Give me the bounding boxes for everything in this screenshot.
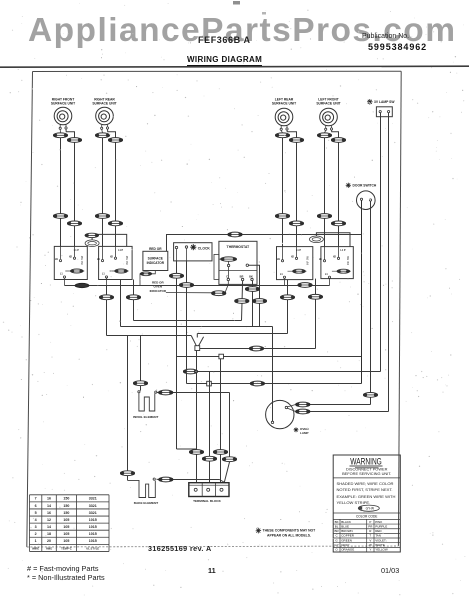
svg-text:W: W xyxy=(369,543,372,547)
svg-text:316255169 rev. A: 316255169 rev. A xyxy=(148,544,212,553)
svg-text:WHITE: WHITE xyxy=(375,543,385,547)
svg-text:H1: H1 xyxy=(55,258,59,261)
svg-text:H2: H2 xyxy=(333,256,337,259)
svg-text:AWG: AWG xyxy=(46,546,52,550)
svg-text:CLOCK: CLOCK xyxy=(198,247,211,251)
svg-text:L1: L1 xyxy=(102,273,105,276)
svg-text:2: 2 xyxy=(35,532,37,536)
svg-text:6: 6 xyxy=(35,504,37,508)
svg-text:1015: 1015 xyxy=(89,539,97,543)
svg-text:1015: 1015 xyxy=(89,518,97,522)
svg-text:105: 105 xyxy=(63,539,69,543)
svg-text:H2: H2 xyxy=(69,255,73,258)
svg-text:14: 14 xyxy=(47,504,51,508)
svg-text:SURFACE UNIT: SURFACE UNIT xyxy=(51,102,75,106)
svg-text:L1 P: L1 P xyxy=(296,249,301,252)
svg-text:EXAMPLE: GREEN WIRE WITH: EXAMPLE: GREEN WIRE WITH xyxy=(337,494,396,499)
svg-text:BK: BK xyxy=(335,520,339,524)
svg-text:L1 P: L1 P xyxy=(74,249,79,252)
svg-text:LAMP: LAMP xyxy=(300,431,309,435)
svg-text:BLUE: BLUE xyxy=(341,524,349,528)
svg-text:T: T xyxy=(369,534,371,538)
svg-text:105: 105 xyxy=(63,532,69,536)
svg-text:12: 12 xyxy=(47,518,51,522)
svg-text:1: 1 xyxy=(35,539,37,543)
svg-text:RED: RED xyxy=(375,529,382,533)
svg-text:SURFACE UNIT: SURFACE UNIT xyxy=(316,102,340,106)
svg-text:1015: 1015 xyxy=(89,525,97,529)
svg-text:TEMP°C: TEMP°C xyxy=(61,546,72,550)
svg-text:TERMINAL BLOCK: TERMINAL BLOCK xyxy=(193,499,222,503)
svg-text:PINK: PINK xyxy=(375,520,382,524)
svg-text:UL STYLE: UL STYLE xyxy=(86,546,99,550)
svg-text:Y: Y xyxy=(369,548,371,552)
svg-text:O: O xyxy=(335,548,338,552)
svg-text:3: 3 xyxy=(35,525,37,529)
svg-text:INF SW: INF SW xyxy=(306,256,310,266)
svg-text:20: 20 xyxy=(47,539,51,543)
svg-text:APPEAR ON ALL MODELS.: APPEAR ON ALL MODELS. xyxy=(267,534,311,538)
svg-text:V: V xyxy=(369,538,371,542)
svg-text:3321: 3321 xyxy=(89,504,97,508)
svg-text:SURFACE UNIT: SURFACE UNIT xyxy=(272,102,296,106)
svg-text:YELLOW STRIPE.: YELLOW STRIPE. xyxy=(337,500,371,505)
svg-text:DOOR SWITCH: DOOR SWITCH xyxy=(353,184,377,188)
svg-text:YELLOW: YELLOW xyxy=(375,548,388,552)
svg-text:BL: BL xyxy=(335,524,339,528)
svg-text:COPPER: COPPER xyxy=(341,534,355,538)
svg-text:G: G xyxy=(335,538,338,542)
svg-text:150: 150 xyxy=(63,504,69,508)
svg-text:INDICATOR: INDICATOR xyxy=(147,261,165,265)
svg-text:3321: 3321 xyxy=(89,511,97,515)
svg-text:GRAY: GRAY xyxy=(341,543,349,547)
svg-text:16: 16 xyxy=(47,497,51,501)
svg-text:H2: H2 xyxy=(291,256,295,259)
svg-text:VIOLET: VIOLET xyxy=(375,538,386,542)
svg-text:INF SW: INF SW xyxy=(125,255,129,265)
svg-text:16: 16 xyxy=(47,511,51,515)
svg-text:H2: H2 xyxy=(110,255,114,258)
svg-text:BEFORE SERVICING UNIT.: BEFORE SERVICING UNIT. xyxy=(342,471,391,476)
svg-text:GY: GY xyxy=(334,543,338,547)
svg-text:INF SW: INF SW xyxy=(346,256,350,266)
svg-text:P: P xyxy=(369,520,371,524)
svg-text:R: R xyxy=(369,529,372,533)
svg-text:WIRE: WIRE xyxy=(32,546,39,550)
svg-text:H1: H1 xyxy=(97,258,101,261)
svg-text:105: 105 xyxy=(63,525,69,529)
svg-text:H1: H1 xyxy=(319,258,323,261)
svg-text:INDICATOR: INDICATOR xyxy=(150,289,167,293)
svg-text:GY-W: GY-W xyxy=(366,507,374,511)
svg-text:1015: 1015 xyxy=(89,532,97,536)
svg-text:105: 105 xyxy=(63,518,69,522)
svg-text:L1: L1 xyxy=(325,273,328,276)
svg-text:14: 14 xyxy=(47,525,51,529)
svg-text:TAN: TAN xyxy=(375,534,381,538)
svg-text:BROIL ELEMENT: BROIL ELEMENT xyxy=(133,415,158,419)
svg-text:PURPLE: PURPLE xyxy=(375,524,387,528)
svg-text:THERMOSTAT: THERMOSTAT xyxy=(227,245,249,249)
svg-text:18: 18 xyxy=(47,532,51,536)
svg-text:150: 150 xyxy=(63,497,69,501)
svg-text:5: 5 xyxy=(35,511,37,515)
svg-text:7: 7 xyxy=(35,497,37,501)
svg-text:PR: PR xyxy=(368,524,373,528)
svg-text:3321: 3321 xyxy=(89,497,97,501)
svg-text:COLOR CODE: COLOR CODE xyxy=(356,515,377,519)
svg-text:L1 P: L1 P xyxy=(118,249,123,252)
svg-text:150: 150 xyxy=(63,511,69,515)
svg-text:RED OR: RED OR xyxy=(149,247,162,251)
svg-text:SURFACE UNIT: SURFACE UNIT xyxy=(92,102,116,106)
svg-text:GREEN: GREEN xyxy=(341,538,352,542)
svg-text:NOTED FIRST, STRIPE NEXT.: NOTED FIRST, STRIPE NEXT. xyxy=(337,487,393,492)
svg-text:H1: H1 xyxy=(277,258,281,261)
svg-text:L1 P: L1 P xyxy=(340,249,345,252)
svg-text:3V LAMP SW: 3V LAMP SW xyxy=(374,100,395,104)
svg-text:L1: L1 xyxy=(280,273,283,276)
svg-text:BR: BR xyxy=(335,529,340,533)
svg-text:SURFACE: SURFACE xyxy=(148,256,163,260)
svg-text:SHADED WIRE; WIRE COLOR: SHADED WIRE; WIRE COLOR xyxy=(337,481,394,486)
svg-text:4: 4 xyxy=(35,518,37,522)
svg-text:C: C xyxy=(336,534,339,538)
svg-text:INF SW: INF SW xyxy=(80,255,84,265)
svg-text:THESE COMPONENTS MAY NOT: THESE COMPONENTS MAY NOT xyxy=(263,528,317,532)
svg-text:L1: L1 xyxy=(60,273,63,276)
svg-text:BROWN: BROWN xyxy=(341,529,353,533)
svg-text:BLACK: BLACK xyxy=(341,520,351,524)
svg-text:BAKE ELEMENT: BAKE ELEMENT xyxy=(134,501,159,505)
